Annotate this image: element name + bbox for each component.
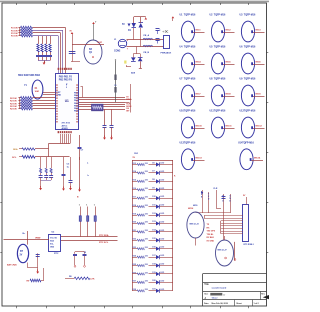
svg-text:LED: LED xyxy=(160,280,164,282)
crystal Y2 with caps xyxy=(73,252,87,268)
label AD8 below diodes xyxy=(131,71,136,74)
U1 top pin numbers xyxy=(58,68,72,70)
svg-text:AVCC: AVCC xyxy=(62,124,68,127)
connector J3 body xyxy=(243,195,255,246)
svg-text:TQFP-M16: TQFP-M16 xyxy=(184,14,196,17)
svg-text:BAT CR20: BAT CR20 xyxy=(7,264,18,267)
svg-text:PWRJACK: PWRJACK xyxy=(161,52,172,55)
svg-text:LED: LED xyxy=(160,221,164,223)
svg-text:LED: LED xyxy=(160,179,164,181)
svg-text:Title: Title xyxy=(204,283,209,286)
svg-text:FLR: FLR xyxy=(214,188,218,190)
capacitors C1-C4 below R1-R4 xyxy=(36,52,52,61)
capacitor C10 xyxy=(156,29,162,35)
svg-text:TQFP-M16: TQFP-M16 xyxy=(184,141,196,144)
ground flag below C1-C4 xyxy=(43,61,46,65)
svg-text:MIC5: MIC5 xyxy=(226,62,232,64)
LED row 4: resistor R16 and led D9 xyxy=(132,188,173,192)
resistor pack RN1 (4 horizontal resistors with labels) xyxy=(11,26,33,38)
sounder U8 (circle, row 3 col 2) xyxy=(210,78,235,106)
svg-text:TQFP-M16: TQFP-M16 xyxy=(214,110,226,113)
cap C13 on net xyxy=(62,157,71,191)
svg-text:TQFP-M16: TQFP-M16 xyxy=(244,110,256,113)
svg-text:MIC2: MIC2 xyxy=(226,30,232,32)
svg-text:XT1 XT2: XT1 XT2 xyxy=(62,123,71,125)
svg-text:U1: U1 xyxy=(65,99,69,103)
cursor arrow at right edge xyxy=(263,295,269,299)
U1 bottom pin numbers xyxy=(58,131,72,133)
svg-text:TQFP-M16: TQFP-M16 xyxy=(244,14,256,17)
resistors R1-R4 (vertical) xyxy=(37,44,51,52)
resistor R35 bottom xyxy=(27,268,44,283)
svg-text:R5: R5 xyxy=(114,85,116,87)
svg-text:er: er xyxy=(223,294,225,296)
pull-up resistors R5 R6 on vertical net xyxy=(114,59,116,102)
svg-text:sounder board: sounder board xyxy=(212,287,227,289)
LED row 6: resistor R18 and led D11 xyxy=(132,204,173,208)
svg-text:R1 10K: R1 10K xyxy=(11,36,18,38)
LED row 3: resistor R15 and led D8 xyxy=(132,179,173,183)
svg-text:MIC1: MIC1 xyxy=(196,30,202,32)
title block text xyxy=(204,283,266,305)
diode D1 xyxy=(132,17,137,40)
LED row 16: resistor R28 and led D21 xyxy=(132,289,173,293)
cap C14 on net xyxy=(69,157,73,190)
svg-text:TQFP-M16: TQFP-M16 xyxy=(244,46,256,49)
wire bus from RN1 bent down into U1 top pins xyxy=(33,28,66,74)
net stub with ground right xyxy=(79,157,81,160)
sounder U10 (circle, row 4 col 1) xyxy=(180,110,205,138)
svg-text:R2 10K: R2 10K xyxy=(10,101,17,103)
sounder U3 (circle, row 1 col 3) xyxy=(240,14,265,42)
crystal Y1 (ellipse) xyxy=(24,80,43,99)
svg-text:Sheet: Sheet xyxy=(236,302,242,305)
resistor R36 bottom middle xyxy=(65,276,95,281)
title block frame xyxy=(203,274,267,307)
wire battery top xyxy=(23,231,28,245)
svg-text:SW1 SW2 SW3 SW4: SW1 SW2 SW3 SW4 xyxy=(18,74,41,77)
svg-text:1 of 2: 1 of 2 xyxy=(254,303,260,305)
U1 internal pin name text xyxy=(56,76,79,130)
diode D4 xyxy=(131,54,136,62)
wires joining Q2 circuit xyxy=(193,205,231,213)
capacitor C11 xyxy=(156,39,162,44)
svg-text:MIC7: MIC7 xyxy=(196,94,202,96)
svg-text:MIC4: MIC4 xyxy=(196,61,202,64)
transistor Q2 (circle) xyxy=(187,208,204,238)
power flag above diodes xyxy=(134,17,147,20)
yellow highlight speck xyxy=(124,61,126,64)
resistor pack RN2 (5 horizontal resistors) with wires to U1 xyxy=(10,97,56,111)
svg-text:R2 10K: R2 10K xyxy=(10,98,17,100)
Q2 emitter stub xyxy=(195,238,197,246)
svg-text:TX0 GPS: TX0 GPS xyxy=(207,231,216,233)
svg-text:RTC SCL: RTC SCL xyxy=(99,242,109,244)
svg-text:Mon Feb 08, 2010: Mon Feb 08, 2010 xyxy=(212,303,229,305)
svg-text:2: 2 xyxy=(66,87,67,89)
capacitor C12 below diodes xyxy=(127,65,132,67)
diode D2 xyxy=(139,17,144,47)
svg-text:R2 10K: R2 10K xyxy=(10,106,17,108)
svg-text:LED: LED xyxy=(160,238,164,240)
svg-text:TQFP-M16: TQFP-M16 xyxy=(184,78,196,81)
resistor R31 row xyxy=(12,155,70,159)
LED row 8: resistor R20 and led D13 xyxy=(132,221,173,225)
LED row 11: resistor R23 and led D16 xyxy=(132,247,173,251)
capacitor C5 under U1 xyxy=(78,135,85,192)
sounder U12 (circle, row 4 col 3) xyxy=(240,110,265,138)
svg-text:SCL: SCL xyxy=(12,157,17,159)
net labels right of bundle xyxy=(126,97,131,113)
sounder U2 (circle, row 1 col 2) xyxy=(210,14,235,42)
LED column right bus xyxy=(173,160,177,291)
svg-text:R2 10K: R2 10K xyxy=(10,103,17,105)
decoupling caps C8 C9 with ground flags xyxy=(103,109,114,139)
svg-text:R1 10K: R1 10K xyxy=(11,33,18,35)
LED row 1: resistor R13 and led D6 xyxy=(132,162,173,166)
svg-text:VCC SO: VCC SO xyxy=(50,238,58,240)
U1 bottom pin wires to bus xyxy=(49,134,71,157)
svg-text:MIC13: MIC13 xyxy=(196,158,203,160)
label above pull resistors xyxy=(77,197,79,199)
ground flag far right of filter group xyxy=(0,0,1,1)
svg-text:BUZ: BUZ xyxy=(98,42,103,44)
svg-text:RTC SDA: RTC SDA xyxy=(99,234,109,237)
wire into rtc left xyxy=(4,236,50,239)
svg-text:MIC14: MIC14 xyxy=(254,157,261,160)
svg-text:FB_A: FB_A xyxy=(144,34,150,37)
power flag right of dc jack xyxy=(172,16,175,21)
wire Q3 top xyxy=(224,236,226,240)
svg-text:MOSI: MOSI xyxy=(188,208,194,210)
label D3 (blue) xyxy=(128,30,132,32)
wire drops from RN1 bus xyxy=(39,36,51,44)
transistor Q3 (circle) xyxy=(216,240,236,266)
sounder U6 (circle, row 2 col 3) xyxy=(240,46,265,74)
svg-text:TQFP-M16: TQFP-M16 xyxy=(184,46,196,49)
sounder U5 (circle, row 2 col 2) xyxy=(210,46,235,74)
svg-text:5V GND: 5V GND xyxy=(207,241,215,243)
battery BT1 (ellipse) xyxy=(7,244,29,266)
svg-text:MIC3: MIC3 xyxy=(256,30,262,32)
discrete parts row above Q2 (net labels, diode, cap) xyxy=(201,188,232,240)
svg-text:MIC11: MIC11 xyxy=(226,126,233,128)
svg-text:MIC12: MIC12 xyxy=(256,126,263,128)
wires out of rtc right xyxy=(61,234,118,244)
sounder U1 (circle, row 1 col 1) xyxy=(180,14,205,42)
mcu U1 body xyxy=(56,74,79,130)
sounder U7 (circle, row 3 col 1) xyxy=(180,78,205,106)
LED row 7: resistor R19 and led D12 xyxy=(132,213,173,217)
dc jack J2 body xyxy=(161,30,172,55)
LED row 10: resistor R22 and led D15 xyxy=(132,238,173,242)
sounder U9 (circle, row 3 col 3) xyxy=(240,78,265,106)
window top grey strip xyxy=(0,0,269,3)
sounder U4 (circle, row 2 col 1) xyxy=(180,46,205,74)
LED column left bus xyxy=(132,153,173,291)
LED row 2: resistor R14 and led D7 xyxy=(132,170,173,175)
U1 left pin stubs xyxy=(43,93,56,95)
svg-text:⊣ DC: ⊣ DC xyxy=(162,30,169,34)
svg-text:16M: 16M xyxy=(35,91,39,93)
svg-text:<Doc>: <Doc> xyxy=(212,297,219,300)
wire through LS1 xyxy=(72,42,104,44)
LED row 15: resistor R27 and led D20 xyxy=(132,280,173,284)
svg-text:GND: GND xyxy=(50,247,55,249)
svg-text:MM 3Z-J3: MM 3Z-J3 xyxy=(190,224,200,226)
LED row 5: resistor R17 and led D10 xyxy=(132,196,173,200)
rtc U20 body xyxy=(49,231,61,255)
svg-text:TQFP-M16: TQFP-M16 xyxy=(244,78,256,81)
svg-text:TQFP-M16: TQFP-M16 xyxy=(242,141,254,144)
series resistor block R12 on bus xyxy=(92,104,104,111)
svg-text:MIC9: MIC9 xyxy=(256,94,262,96)
svg-text:PB2 PB3 P3: PB2 PB3 P3 xyxy=(59,78,73,81)
svg-text:MIC10: MIC10 xyxy=(196,126,203,128)
wire pair J1 to DC jack xyxy=(127,40,164,47)
svg-text:Date:: Date: xyxy=(204,302,209,305)
wire hook up from U1 xyxy=(81,87,83,98)
power flag VCC near U1 top xyxy=(69,31,80,62)
connector J1 (circle) xyxy=(114,39,129,53)
LED row 14: resistor R26 and led D19 xyxy=(132,272,173,276)
diode D5 xyxy=(133,47,142,62)
svg-text:RX BLE: RX BLE xyxy=(207,237,215,239)
svg-text:RTC: RTC xyxy=(54,253,59,255)
sounder U13 (circle, row 5 col 1) xyxy=(180,141,205,169)
LED row 9: resistor R21 and led D14 xyxy=(132,229,173,234)
cap C15 near battery xyxy=(36,255,40,257)
ferrite bead FB1 xyxy=(143,34,153,54)
wire battery bottom to gnd xyxy=(28,253,40,274)
svg-text:MISO: MISO xyxy=(126,99,131,101)
LED row 13: resistor R25 and led D18 xyxy=(132,263,173,267)
tiny blue marks xyxy=(87,163,90,178)
svg-text:TQFP-M16: TQFP-M16 xyxy=(214,14,226,17)
svg-text:FLR: FLR xyxy=(134,153,138,155)
svg-text:LED: LED xyxy=(160,196,164,198)
svg-text:TQFP-M16: TQFP-M16 xyxy=(214,78,226,81)
svg-text:4.7K: 4.7K xyxy=(90,278,95,281)
RC filter group R/C x3 with ground xyxy=(39,157,54,190)
sounder U11 (circle, row 4 col 2) xyxy=(210,110,235,138)
svg-text:R1 10K: R1 10K xyxy=(11,30,18,32)
svg-text:SDA: SDA xyxy=(13,148,18,151)
svg-text:CON2: CON2 xyxy=(114,51,121,53)
net labels at J3 xyxy=(207,224,216,243)
power stub above LS1 xyxy=(92,22,97,41)
svg-text:TX0 BL: TX0 BL xyxy=(207,234,215,236)
svg-text:TQFP-M16: TQFP-M16 xyxy=(184,110,196,113)
connector J3 pin wires xyxy=(204,216,243,234)
svg-text:LED: LED xyxy=(160,213,164,215)
svg-text:AGND: AGND xyxy=(62,127,69,130)
power label (blue) top xyxy=(122,24,131,27)
wire stub red below D5 xyxy=(139,61,142,68)
svg-text:MOS: MOS xyxy=(193,205,198,207)
pull resistors R32-R34 vertical xyxy=(79,205,96,237)
svg-text:MIC8: MIC8 xyxy=(226,94,232,96)
svg-text:MIC6: MIC6 xyxy=(256,62,262,64)
svg-text:LED: LED xyxy=(160,255,164,257)
svg-text:VBAT: VBAT xyxy=(35,236,41,239)
wire below J3 xyxy=(234,242,236,261)
svg-text:MM 3Z-J7: MM 3Z-J7 xyxy=(218,250,228,252)
svg-text:R2 10K: R2 10K xyxy=(10,109,17,111)
sounder U14 (circle, row 5 col 3) xyxy=(238,141,263,169)
LED row 12: resistor R24 and led D17 xyxy=(132,254,173,259)
svg-text:R1 10K: R1 10K xyxy=(11,28,18,30)
net label row (blue) xyxy=(18,74,41,77)
buzzer LS1 (ellipse) xyxy=(84,40,102,64)
svg-text:FB_B: FB_B xyxy=(144,52,150,54)
resistor R30 row (orange label) xyxy=(13,148,49,151)
U1 right wire bundle xyxy=(79,84,132,113)
svg-text:RT1 R38L1: RT1 R38L1 xyxy=(244,244,255,246)
svg-text:TQFP-M16: TQFP-M16 xyxy=(214,46,226,49)
